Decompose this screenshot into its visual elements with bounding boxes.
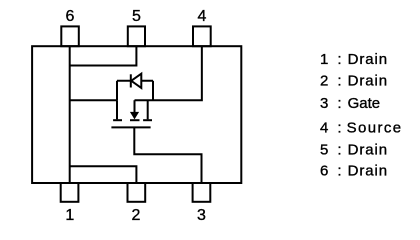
svg-text:4:Source: 4:Source <box>320 119 403 136</box>
wire drain bus to pin 2 <box>70 166 137 183</box>
pin 4 pad <box>193 26 211 46</box>
wire gate to pin 3 <box>134 127 201 183</box>
transistor Q1 gate bar <box>111 126 150 128</box>
transistor Q1 body arrow shaft <box>134 100 136 113</box>
diode D1 anode lead <box>152 81 154 100</box>
diode D1 top wire <box>117 80 153 82</box>
pin 6 pad <box>61 26 79 46</box>
svg-text:1:Drain: 1:Drain <box>320 51 388 68</box>
svg-text:2:Drain: 2:Drain <box>320 73 388 90</box>
svg-text:5: 5 <box>132 8 141 25</box>
wire pin 4 to MOSFET source rail <box>135 46 202 100</box>
svg-text:2: 2 <box>131 207 140 224</box>
transistor Q1 source channel dash <box>143 119 152 121</box>
pin 3 pad <box>193 183 211 202</box>
pin 5 pad <box>128 26 145 46</box>
transistor Q1 body arrow head <box>130 112 139 120</box>
pin 2 pad <box>128 183 146 202</box>
svg-text:3:Gate: 3:Gate <box>320 95 380 112</box>
diode D1 triangle <box>131 74 141 88</box>
wire drain bus from pin 6 to pin 1 <box>69 46 71 183</box>
package body outline U1 <box>32 46 241 183</box>
transistor Q1 source stub <box>147 100 149 119</box>
svg-text:1: 1 <box>65 207 74 224</box>
svg-text:4: 4 <box>198 8 207 25</box>
svg-text:3: 3 <box>197 207 206 224</box>
wire pin 5 to drain bus <box>70 46 137 65</box>
transistor Q1 drain stub <box>116 100 118 119</box>
svg-text:6:Drain: 6:Drain <box>320 163 388 180</box>
transistor Q1 body channel dash <box>130 119 140 121</box>
pin 1 pad <box>61 183 79 202</box>
diode D1 cathode bar <box>130 74 132 87</box>
diode D1 cathode lead <box>116 81 118 100</box>
transistor Q1 drain channel dash <box>113 119 122 121</box>
svg-text:5:Drain: 5:Drain <box>320 142 388 159</box>
wire drain bus to MOSFET drain rail <box>70 99 117 101</box>
svg-text:6: 6 <box>66 8 75 25</box>
